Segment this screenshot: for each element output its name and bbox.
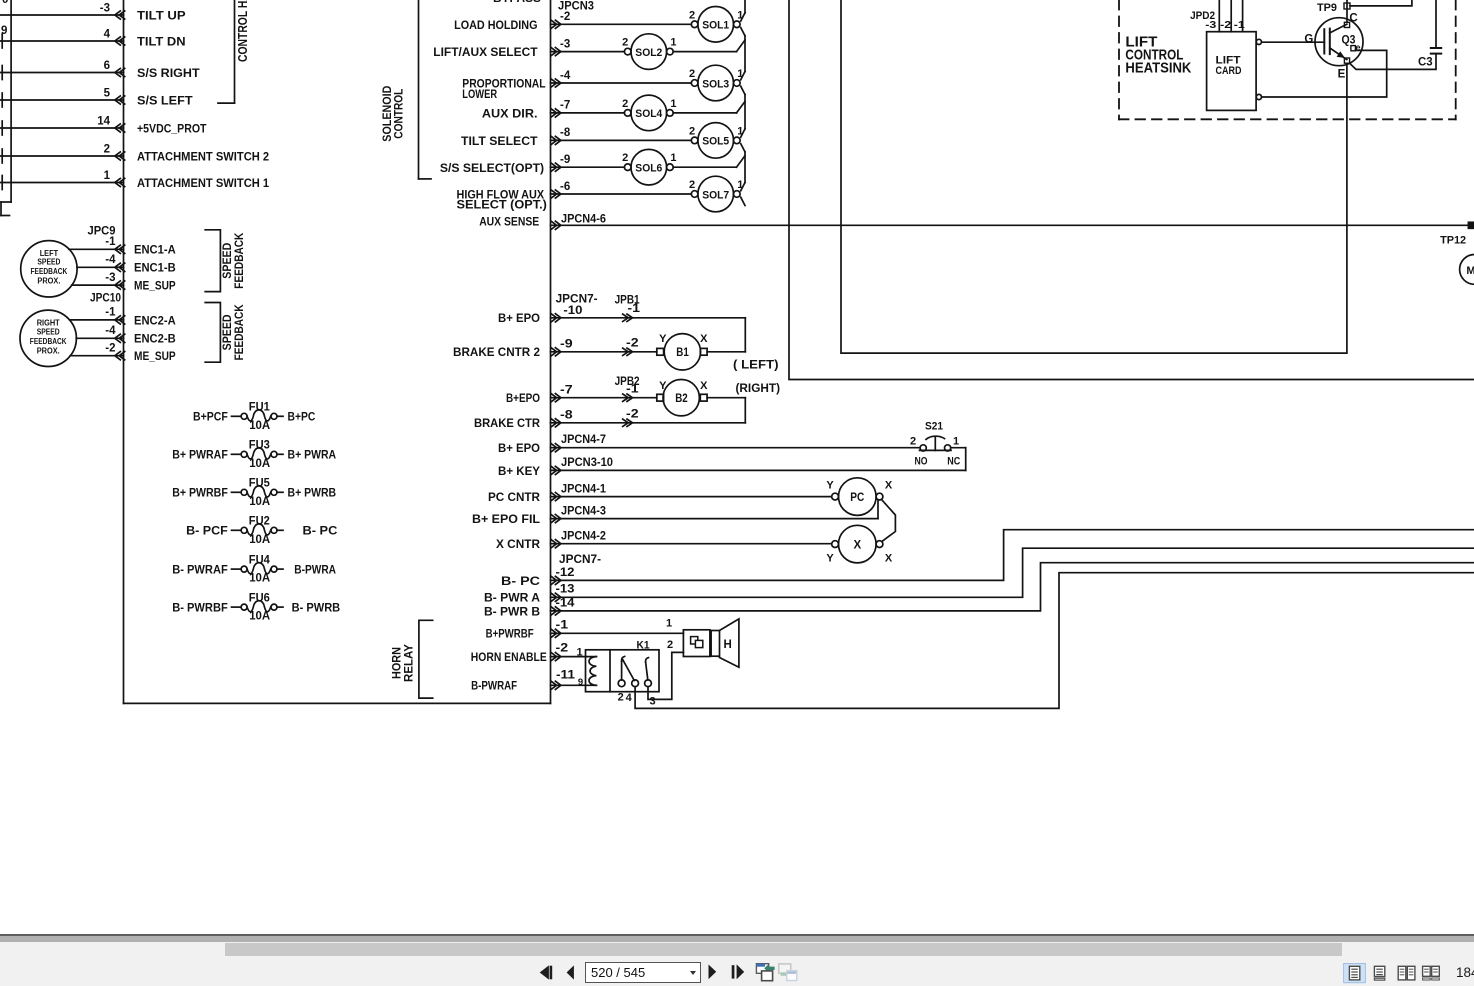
wire bus to Q3 emitter (y353.1) xyxy=(841,0,1347,353)
label ME_SUP xyxy=(134,349,176,363)
net B- PC xyxy=(303,524,338,538)
pin JPB2-1 xyxy=(626,384,639,396)
bracket CONTROL HANDLE xyxy=(218,0,235,103)
pin 1 of SOL2 xyxy=(670,37,676,49)
contactor coil X xyxy=(832,525,883,563)
wire B- PC xyxy=(551,530,1474,585)
svg-text:G: G xyxy=(1304,34,1313,46)
pin 6 xyxy=(104,60,110,72)
svg-text:B+ PWRBF: B+ PWRBF xyxy=(172,486,228,500)
pin JPCN3-8 xyxy=(560,127,571,139)
svg-text:SOL2: SOL2 xyxy=(635,47,662,59)
svg-text:ENC1-B: ENC1-B xyxy=(134,261,176,275)
value 10A xyxy=(249,458,270,470)
wire K1 pin3 to horn pin2 xyxy=(648,652,683,699)
svg-text:CONTROL: CONTROL xyxy=(391,89,405,139)
pin E of Q3 xyxy=(1338,58,1350,80)
value 10A xyxy=(249,420,270,432)
pin 5 xyxy=(104,87,111,99)
svg-text:RELAY: RELAY xyxy=(401,644,415,682)
svg-text:Y: Y xyxy=(826,553,834,565)
svg-text:1: 1 xyxy=(953,436,959,448)
wire ENC1-B xyxy=(77,263,125,271)
svg-text:TILT UP: TILT UP xyxy=(137,8,186,22)
svg-text:Y: Y xyxy=(826,479,834,491)
wire Q3 kelvin to lift card pin2 xyxy=(1262,50,1387,97)
next page button xyxy=(709,964,717,979)
net B- PCF xyxy=(186,524,228,538)
label (RIGHT) xyxy=(736,381,781,395)
previous view icon xyxy=(756,963,774,980)
horn H xyxy=(683,619,739,667)
label G xyxy=(1304,34,1313,46)
svg-text:B1: B1 xyxy=(676,347,689,359)
svg-text:TP12: TP12 xyxy=(1440,234,1466,246)
svg-text:PROX.: PROX. xyxy=(37,347,60,356)
svg-text:B+ PWRAF: B+ PWRAF xyxy=(172,448,228,462)
svg-text:B+ KEY: B+ KEY xyxy=(498,464,540,478)
label TILT UP xyxy=(137,8,186,22)
label SPEED FEEDBACK 1 (rotated) xyxy=(220,232,246,288)
svg-text:PROX.: PROX. xyxy=(37,277,60,286)
svg-text:C: C xyxy=(1349,13,1357,25)
pin -1 (JPCN7) xyxy=(556,620,569,632)
pin 9 of K1 xyxy=(578,677,583,688)
svg-text:9: 9 xyxy=(578,677,583,688)
controller card box xyxy=(124,0,551,703)
pin -10 xyxy=(563,305,582,317)
pin 2 of SOL6 xyxy=(622,152,628,164)
svg-text:-3: -3 xyxy=(1205,19,1216,31)
label FU2 xyxy=(249,516,270,528)
pin 2 of K1 xyxy=(618,691,624,703)
wire S/S SELECT(OPT) / JPCN3-9 xyxy=(551,163,625,171)
label HORN RELAY (rotated) xyxy=(389,644,415,682)
label TILT SELECT xyxy=(461,134,538,148)
label SPEED FEEDBACK 2 (rotated) xyxy=(220,304,246,360)
pin X of B1 xyxy=(700,333,708,345)
svg-text:6: 6 xyxy=(104,60,110,72)
wire B+ EPO (JPB1-1) xyxy=(551,314,746,352)
wire AUX SENSE JPCN4-6 to TP12 xyxy=(551,221,1469,229)
pin JPCN3-9 xyxy=(560,154,570,166)
label FU6 xyxy=(249,593,270,605)
label NC xyxy=(947,455,960,467)
pin 1 of SOL1 xyxy=(737,9,743,21)
svg-text:2: 2 xyxy=(618,691,624,703)
svg-text:LIFT/AUX SELECT: LIFT/AUX SELECT xyxy=(433,45,538,59)
svg-text:JPCN4-3: JPCN4-3 xyxy=(561,505,606,517)
wire LIFT/AUX SELECT / JPCN3-3 xyxy=(551,48,625,56)
svg-text:B-PWRAF: B-PWRAF xyxy=(471,679,517,693)
svg-text:X: X xyxy=(700,380,708,392)
pin 1 of SOL5 xyxy=(737,125,743,137)
pin JPCN3-2 xyxy=(560,11,570,23)
pin X of X coil xyxy=(885,553,893,565)
net B+ PWRB xyxy=(288,486,337,500)
wire JPD2-3 xyxy=(1218,0,1220,32)
wire B+ EPO FIL xyxy=(551,500,879,523)
relay K1 xyxy=(586,639,660,691)
pin Y of X coil xyxy=(826,553,834,565)
svg-text:-14: -14 xyxy=(556,597,576,609)
wire BRAKE CNTR 2 xyxy=(551,348,746,356)
svg-text:B+ EPO FIL: B+ EPO FIL xyxy=(472,512,540,526)
svg-text:B- PWR B: B- PWR B xyxy=(484,604,540,618)
view mode: facing xyxy=(1398,966,1415,980)
pin JPCN4-3 xyxy=(561,505,606,517)
svg-text:-7: -7 xyxy=(560,100,570,112)
wire ME_SUP xyxy=(72,281,125,289)
svg-text:-8: -8 xyxy=(560,410,573,422)
wire gate drive to Q3 xyxy=(1262,41,1325,43)
svg-text:2: 2 xyxy=(667,639,673,651)
pin C of Q3 xyxy=(1344,13,1357,28)
svg-text:FU5: FU5 xyxy=(249,478,271,490)
bracket SPEED FEEDBACK 2 xyxy=(205,303,220,363)
svg-text:-3: -3 xyxy=(105,272,115,284)
pin Y of PC xyxy=(826,479,834,491)
label SOLENOID CONTROL (rotated) xyxy=(380,85,405,141)
test point TP12 xyxy=(1468,222,1474,228)
pin JPC9-3 xyxy=(105,272,115,284)
svg-text:LOWER: LOWER xyxy=(462,87,497,101)
wire ENC2-A xyxy=(70,316,125,324)
pin -13 xyxy=(556,584,575,596)
svg-text:-9: -9 xyxy=(560,154,570,166)
svg-text:-2: -2 xyxy=(1220,19,1231,31)
pin 3 of K1 xyxy=(649,696,655,708)
svg-text:Y: Y xyxy=(659,380,667,392)
dropdown caret xyxy=(689,970,695,974)
view mode: continuous xyxy=(1374,966,1384,980)
heatsink enclosure (dashed) xyxy=(1119,0,1456,119)
svg-text:-2: -2 xyxy=(626,408,639,420)
fuse FU4 10A xyxy=(232,563,284,574)
wire bus to right edge (y379.5) xyxy=(789,0,1474,380)
label TILT DN xyxy=(137,34,186,48)
label B- PWR B xyxy=(484,604,540,618)
fuse FU5 10A xyxy=(232,486,284,497)
connector label JPCN3 xyxy=(558,0,594,12)
svg-text:10A: 10A xyxy=(249,458,270,470)
wire B- PWR B xyxy=(551,563,1474,615)
svg-text:1: 1 xyxy=(670,152,676,164)
net B- PWRBF xyxy=(172,601,228,615)
svg-text:-1: -1 xyxy=(105,307,116,319)
solenoid SOL3 xyxy=(691,65,740,101)
pin 2 of S21 xyxy=(910,436,916,448)
svg-text:B- PWRAF: B- PWRAF xyxy=(172,563,228,577)
pin -7 xyxy=(560,385,573,397)
first page button xyxy=(540,965,552,979)
svg-text:S21: S21 xyxy=(925,420,943,432)
label HORN ENABLE xyxy=(471,650,547,664)
svg-text:AUX DIR.: AUX DIR. xyxy=(482,107,538,121)
pin -12 xyxy=(556,567,575,579)
label JPD2 xyxy=(1190,10,1215,22)
svg-text:2: 2 xyxy=(689,68,695,80)
pin 2 of SOL1 xyxy=(689,9,695,21)
svg-text:-2: -2 xyxy=(560,11,570,23)
wire HIGH FLOW AUX / JPCN3-6 xyxy=(551,190,692,198)
value 10A xyxy=(249,573,270,585)
view mode: single page (selected) xyxy=(1344,963,1366,982)
svg-text:-4: -4 xyxy=(105,325,116,337)
wire Q3 emitter to C3 xyxy=(1350,55,1436,70)
wire X CNTR xyxy=(551,540,832,548)
svg-text:FEEDBACK: FEEDBACK xyxy=(232,304,246,360)
label S/S RIGHT xyxy=(137,66,200,80)
label NO xyxy=(915,455,928,467)
svg-text:SPEED: SPEED xyxy=(37,328,60,337)
svg-text:ME_SUP: ME_SUP xyxy=(134,349,176,363)
label B+ KEY xyxy=(498,464,540,478)
pin 2 of SOL2 xyxy=(622,37,628,49)
svg-text:JPCN4-7: JPCN4-7 xyxy=(561,434,606,446)
label ENC2-B xyxy=(134,332,176,346)
svg-text:JPCN4-1: JPCN4-1 xyxy=(561,483,607,495)
pin 4 of K1 xyxy=(626,692,633,704)
svg-text:10A: 10A xyxy=(249,496,270,508)
svg-text:FEEDBACK: FEEDBACK xyxy=(232,232,246,288)
wire ENC2-B xyxy=(76,334,125,342)
label ( LEFT) xyxy=(733,358,779,372)
label +5VDC_PROT xyxy=(137,121,207,135)
wire JPD2-1 xyxy=(1242,0,1244,32)
switch S21 xyxy=(920,420,952,451)
svg-text:-1: -1 xyxy=(627,303,640,315)
pin JPB2-2 xyxy=(626,408,639,420)
label B- PWR A xyxy=(484,591,540,605)
wire B- PWR A xyxy=(551,548,1474,601)
pin 1 of SOL3 xyxy=(737,68,743,80)
fuse FU2 10A xyxy=(232,524,284,535)
wire K1 pin4 to right edge xyxy=(635,573,1474,709)
svg-text:1: 1 xyxy=(670,37,676,49)
net B+ PWRAF xyxy=(172,448,228,462)
svg-text:HEATSINK: HEATSINK xyxy=(1125,60,1191,77)
net B+ PWRBF xyxy=(172,486,228,500)
svg-text:S/S LEFT: S/S LEFT xyxy=(137,93,193,107)
svg-text:JPCN3-10: JPCN3-10 xyxy=(561,457,613,469)
svg-text:BRAKE CNTR 2: BRAKE CNTR 2 xyxy=(453,345,540,359)
fuse FU6 10A xyxy=(232,601,284,612)
svg-text:B+ PWRB: B+ PWRB xyxy=(288,486,337,500)
svg-text:S/S RIGHT: S/S RIGHT xyxy=(137,66,200,80)
svg-text:X: X xyxy=(885,479,893,491)
svg-text:-12: -12 xyxy=(556,567,575,579)
pin JPC10-4 xyxy=(105,325,116,337)
svg-text:SPEED: SPEED xyxy=(37,258,60,267)
bracket SOLENOID CONTROL xyxy=(419,0,432,179)
svg-text:SOL7: SOL7 xyxy=(702,189,729,201)
svg-text:Y: Y xyxy=(659,333,667,345)
svg-text:5: 5 xyxy=(104,87,111,99)
pin 2 xyxy=(104,143,110,155)
wire S/S RIGHT xyxy=(0,66,125,80)
svg-text:K1: K1 xyxy=(637,639,650,651)
net B- PWRB xyxy=(292,601,341,615)
solenoid SOL4 xyxy=(624,95,673,131)
bracket HORN RELAY xyxy=(419,620,433,698)
svg-text:-3: -3 xyxy=(100,2,110,14)
net B- PWRAF xyxy=(172,563,228,577)
pin 2 of SOL7 xyxy=(689,179,695,191)
svg-text:-11: -11 xyxy=(556,669,576,681)
svg-text:S/S SELECT(OPT): S/S SELECT(OPT) xyxy=(440,161,544,175)
svg-text:JPC10: JPC10 xyxy=(90,293,121,305)
svg-text:B+PCF: B+PCF xyxy=(193,410,228,424)
pin -3 xyxy=(100,2,110,14)
svg-text:2: 2 xyxy=(104,143,110,155)
pin -3 xyxy=(1205,19,1216,31)
svg-text:JPCN4-6: JPCN4-6 xyxy=(561,214,606,226)
wire HORN ENABLE xyxy=(551,653,597,661)
wire B+PWRBF to horn xyxy=(551,629,684,637)
pin -1 xyxy=(1234,19,1245,31)
svg-text:SOL3: SOL3 xyxy=(702,78,729,90)
label JPB2 xyxy=(615,376,640,388)
pin 1 of K1 xyxy=(576,646,582,658)
label B+ EPO FIL xyxy=(472,512,540,526)
wire B-PWRAF xyxy=(551,681,597,689)
svg-text:B-PWRA: B-PWRA xyxy=(294,563,336,577)
value 10A xyxy=(249,611,270,623)
wire SOL6 pin1 to bus xyxy=(673,156,745,168)
svg-text:10A: 10A xyxy=(249,573,270,585)
label TP9 xyxy=(1317,2,1337,14)
value 10A xyxy=(249,534,270,546)
wire S/S LEFT xyxy=(0,93,125,107)
pin 2 of horn xyxy=(667,639,673,651)
svg-text:TILT DN: TILT DN xyxy=(137,34,186,48)
wire Q3 collector to TP9 xyxy=(1346,0,1348,22)
svg-text:SOL6: SOL6 xyxy=(635,163,662,175)
pin JPCN4-7 xyxy=(561,434,606,446)
capacitor C3 xyxy=(1418,0,1441,69)
svg-text:PC CNTR: PC CNTR xyxy=(488,490,540,504)
svg-text:ENC2-A: ENC2-A xyxy=(134,313,176,327)
svg-text:FEEDBACK: FEEDBACK xyxy=(31,267,68,276)
net B+PC xyxy=(288,410,316,424)
label ATTACHMENT SWITCH 1 xyxy=(137,176,269,190)
svg-text:-4: -4 xyxy=(105,254,116,266)
label 9 (cut pin) xyxy=(1,25,7,37)
svg-text:B- PWR A: B- PWR A xyxy=(484,591,540,605)
label ENC2-A xyxy=(134,313,176,327)
svg-text:-9: -9 xyxy=(560,339,573,351)
pin JPCN3-10 xyxy=(561,457,613,469)
transistor Q3 (IGBT) xyxy=(1315,18,1363,66)
label PC CNTR xyxy=(488,490,540,504)
bracket SPEED FEEDBACK 1 xyxy=(205,230,220,292)
pin Y of B2 xyxy=(659,380,667,392)
svg-text:SOL4: SOL4 xyxy=(635,108,663,120)
svg-text:2: 2 xyxy=(689,9,695,21)
svg-text:10A: 10A xyxy=(249,420,270,432)
svg-text:-13: -13 xyxy=(556,584,575,596)
solenoid SOL7 xyxy=(691,176,740,212)
brake coil B1 xyxy=(657,334,707,370)
wire B+EPO (JPB2-1) xyxy=(551,394,746,402)
svg-text:4: 4 xyxy=(104,28,111,40)
label ENC1-A xyxy=(134,243,176,257)
pin 14 xyxy=(97,115,110,127)
label FU4 xyxy=(249,555,271,567)
pin Y of B1 xyxy=(659,333,667,345)
svg-text:X CNTR: X CNTR xyxy=(496,537,540,551)
svg-text:-10: -10 xyxy=(563,305,582,317)
wire SOL4 pin1 to bus xyxy=(673,101,745,113)
svg-text:ATTACHMENT SWITCH 1: ATTACHMENT SWITCH 1 xyxy=(137,176,269,190)
pin -2 xyxy=(1220,19,1231,31)
svg-text:B+PWRBF: B+PWRBF xyxy=(486,627,534,641)
svg-text:JPCN7-: JPCN7- xyxy=(556,294,598,306)
svg-text:9: 9 xyxy=(1,25,7,37)
svg-text:( LEFT): ( LEFT) xyxy=(733,358,779,372)
pin JPC9-1 xyxy=(105,236,116,248)
pin -2 (JPCN7) xyxy=(556,643,569,655)
test point TP9 xyxy=(1344,3,1350,9)
label BRAKE CTR xyxy=(474,416,540,430)
svg-text:-3: -3 xyxy=(560,38,570,50)
svg-text:FU3: FU3 xyxy=(249,440,270,452)
label B+ EPO xyxy=(498,311,540,325)
svg-text:TILT SELECT: TILT SELECT xyxy=(461,134,538,148)
svg-text:X: X xyxy=(853,540,861,552)
label HIGH FLOW AUX SELECT (OPT.) xyxy=(457,188,547,212)
motor M xyxy=(1460,255,1474,285)
svg-text:FU2: FU2 xyxy=(249,516,270,528)
pin JPC10-1 xyxy=(105,307,116,319)
label B+EPO xyxy=(506,391,540,405)
svg-text:2: 2 xyxy=(689,125,695,137)
pin JPB1-2 xyxy=(626,337,639,349)
svg-text:ATTACHMENT SWITCH 2: ATTACHMENT SWITCH 2 xyxy=(137,149,269,163)
pin JPCN3-4 xyxy=(560,70,571,82)
svg-text:E: E xyxy=(1338,68,1346,80)
label S/S LEFT xyxy=(137,93,193,107)
solenoid SOL1 xyxy=(691,7,740,43)
wire TILT SELECT / JPCN3-8 xyxy=(551,136,692,144)
sensor LEFT SPEED FEEDBACK PROX xyxy=(21,241,77,297)
pin JPCN3-3 xyxy=(560,38,570,50)
svg-text:184%: 184% xyxy=(1456,965,1474,980)
wire JPD2-2 xyxy=(1230,0,1232,32)
net B+PCF xyxy=(193,410,228,424)
svg-text:2: 2 xyxy=(622,152,628,164)
pin X of B2 xyxy=(700,380,708,392)
pin JPCN3-6 xyxy=(560,181,570,193)
pin 4 xyxy=(104,28,111,40)
pin -14 xyxy=(556,597,576,609)
label B- PC xyxy=(501,574,540,588)
label LIFT CONTROL HEATSINK xyxy=(1125,34,1191,77)
svg-text:-4: -4 xyxy=(560,70,571,82)
label PROPORTIONAL LOWER xyxy=(462,77,545,101)
svg-text:0: 0 xyxy=(2,0,8,6)
pin -9 xyxy=(560,339,573,351)
label LOAD HOLDING xyxy=(454,18,537,32)
label FU5 xyxy=(249,478,271,490)
contactor coil PC xyxy=(832,478,883,516)
pin JPCN4-6 xyxy=(561,214,606,226)
label FU1 xyxy=(249,402,271,414)
wire B+ EPO to S21 xyxy=(551,444,921,452)
label AUX DIR. xyxy=(482,107,538,121)
svg-text:ENC1-A: ENC1-A xyxy=(134,243,176,257)
